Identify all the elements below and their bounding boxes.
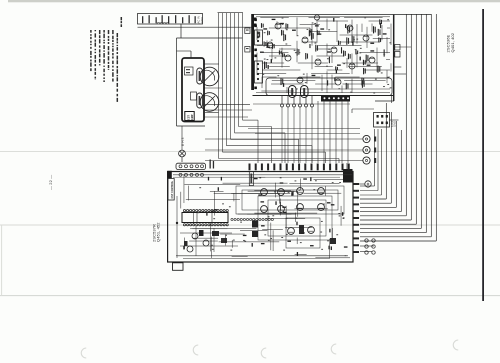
svg-text:CST CONTROL: CST CONTROL <box>172 180 174 198</box>
svg-text:2SC536E: 2SC536E <box>446 34 451 52</box>
svg-text:AMP: AMP <box>191 114 194 120</box>
svg-text:120V: 120V <box>200 17 204 24</box>
svg-text:CN4: CN4 <box>390 120 394 127</box>
svg-text:E H 3: E H 3 <box>181 137 185 146</box>
svg-text:2SC537R: 2SC537R <box>151 224 156 242</box>
svg-text:— 22 —: — 22 — <box>48 175 53 190</box>
